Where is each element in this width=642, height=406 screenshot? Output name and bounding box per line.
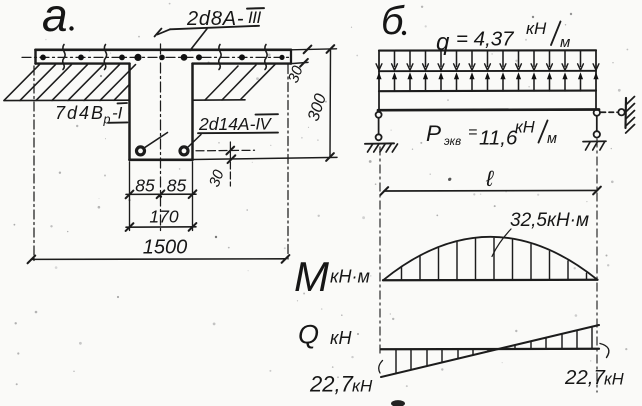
svg-text:кН·м: кН·м xyxy=(330,267,370,287)
svg-text:170: 170 xyxy=(149,207,178,227)
svg-text:III: III xyxy=(248,8,261,27)
svg-text:кН: кН xyxy=(352,377,373,396)
svg-text:85: 85 xyxy=(167,176,187,196)
svg-text:кН: кН xyxy=(330,328,352,348)
svg-text:32,5кН·м: 32,5кН·м xyxy=(510,210,589,231)
svg-text:= 4,37: = 4,37 xyxy=(456,28,515,51)
svg-text:q: q xyxy=(436,29,450,56)
svg-text:2d14A-: 2d14A- xyxy=(198,114,256,134)
svg-text:22,7: 22,7 xyxy=(564,366,606,389)
svg-text:p: p xyxy=(103,113,111,127)
svg-text:-I: -I xyxy=(112,104,123,123)
svg-text:м: м xyxy=(560,34,570,51)
svg-text:экв: экв xyxy=(444,136,461,148)
svg-text:б: б xyxy=(381,0,405,43)
svg-text:M: M xyxy=(294,253,329,300)
svg-text:ℓ: ℓ xyxy=(485,166,494,191)
svg-text:кН: кН xyxy=(604,371,624,389)
svg-text:7d4B: 7d4B xyxy=(55,103,105,123)
svg-text:1500: 1500 xyxy=(143,237,188,259)
svg-text:кН: кН xyxy=(515,119,535,137)
svg-text:85: 85 xyxy=(135,176,155,196)
svg-text:=: = xyxy=(468,124,477,141)
svg-text:Q: Q xyxy=(298,320,319,350)
svg-text:IV: IV xyxy=(256,116,273,134)
svg-text:Р: Р xyxy=(426,121,441,146)
svg-text:22,7: 22,7 xyxy=(309,372,354,397)
svg-text:11,6: 11,6 xyxy=(479,127,518,150)
svg-text:a: a xyxy=(42,0,68,41)
svg-text:м: м xyxy=(547,131,557,147)
svg-text:кН: кН xyxy=(526,19,547,38)
